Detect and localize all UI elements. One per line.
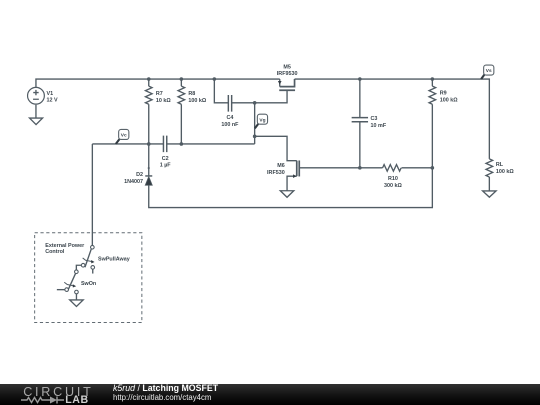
svg-text:Vs: Vs [486,68,492,74]
resistor R10 [383,165,402,172]
junction R7 bottom / D2 [147,142,151,146]
junction R9 bottom / R10 [431,166,435,170]
wire top rail right [295,79,490,159]
svg-text:100 nF: 100 nF [221,122,239,128]
ground below SwOn [70,300,83,307]
svg-text:300 kΩ: 300 kΩ [384,183,402,189]
switch SwOn [57,270,78,300]
junction C3 top rail [358,77,362,81]
junction node Vg to M6 drain [253,135,257,139]
svg-text:R7: R7 [156,91,163,97]
svg-text:M5: M5 [283,64,291,70]
dashed box External Power Control [35,233,142,323]
svg-text:C3: C3 [371,116,378,122]
ground below RL [483,191,496,197]
diode D2 [145,144,152,185]
svg-text:SwOn: SwOn [81,281,96,287]
svg-text:IRF530: IRF530 [267,170,285,176]
resistor RL [486,159,493,191]
svg-text:D2: D2 [136,172,143,178]
node flag Vs [481,65,494,79]
node flag Vc [116,129,129,143]
svg-text:Vg: Vg [259,117,265,123]
ground below V1 [30,118,43,125]
wire rail Vc (y=143.6) [92,143,254,145]
junction R9 top [431,77,435,81]
wire Vg to M6 drain [255,136,297,160]
footer logo CIRCUIT LAB [23,385,93,399]
ground below M6 [280,191,293,198]
junction node Vg at C4 [253,101,257,105]
capacitor C4 [228,95,231,112]
capacitor C3 [352,79,368,168]
footer title [113,383,218,393]
svg-text:100 kΩ: 100 kΩ [440,98,458,104]
svg-text:100 kΩ: 100 kΩ [188,98,206,104]
transistor M6 [287,160,299,190]
svg-text:M6: M6 [277,163,285,169]
svg-text:R9: R9 [440,91,447,97]
junction R8 top [180,77,184,81]
capacitor C2 [163,136,166,153]
svg-text:IRF9530: IRF9530 [277,71,298,77]
resistor R7 [145,79,152,144]
wire Vc down to switch [91,144,93,245]
svg-text:Control: Control [45,249,65,255]
svg-text:R8: R8 [188,91,195,97]
junction R8 bottom [180,142,184,146]
wire Vg vertical [254,103,256,144]
node flag Vg [255,114,268,128]
footer bar [0,384,540,405]
wire gate rail M6 (y=167.5) [299,167,432,169]
svg-text:RL: RL [496,162,504,168]
svg-text:12 V: 12 V [47,98,58,104]
svg-text:10 mF: 10 mF [371,123,387,129]
wire top rail left [36,79,280,87]
resistor R9 [429,79,436,168]
svg-text:C4: C4 [226,115,233,121]
wire bottom rail [149,168,433,208]
svg-text:V1: V1 [47,91,54,97]
wire gate M5 / C4 net [214,79,287,103]
svg-text:1 µF: 1 µF [160,163,172,169]
svg-text:10 kΩ: 10 kΩ [156,98,171,104]
switch SwPullAway [76,245,94,273]
svg-text:Vc: Vc [121,133,127,139]
D2 pin dot [148,167,150,169]
voltage source V1 [28,87,45,118]
svg-text:1N4007: 1N4007 [124,179,143,185]
svg-text:C2: C2 [162,156,169,162]
junction C3 bottom / gate rail [358,166,362,170]
svg-text:SwPullAway: SwPullAway [98,257,130,263]
transistor M5 [279,79,295,90]
svg-text:100 kΩ: 100 kΩ [496,169,514,175]
svg-text:R10: R10 [388,176,398,182]
junction R7 top [147,77,151,81]
resistor R8 [178,79,185,144]
junction C4 top rail [213,77,217,81]
